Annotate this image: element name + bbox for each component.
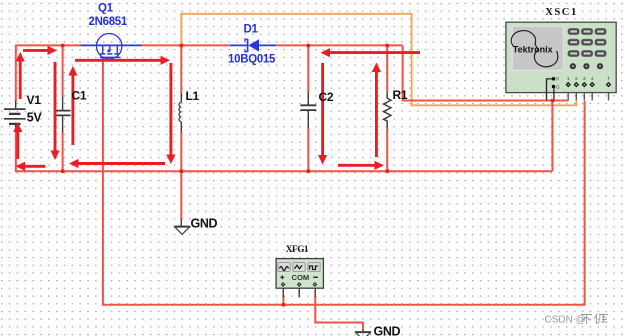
svg-text:GND: GND bbox=[374, 325, 401, 336]
svg-text:V1: V1 bbox=[27, 93, 42, 107]
svg-text:P: P bbox=[556, 77, 559, 82]
svg-text:XSC1: XSC1 bbox=[545, 7, 578, 18]
svg-text:5V: 5V bbox=[27, 111, 43, 125]
svg-text:C2: C2 bbox=[319, 90, 334, 104]
svg-text:GND: GND bbox=[191, 217, 218, 231]
svg-text:R1: R1 bbox=[393, 88, 408, 102]
svg-text:Tektronix: Tektronix bbox=[513, 44, 553, 54]
svg-text:4: 4 bbox=[591, 76, 594, 81]
svg-text:2: 2 bbox=[575, 76, 578, 81]
svg-text:XFG1: XFG1 bbox=[286, 245, 309, 255]
svg-text:C1: C1 bbox=[72, 89, 87, 103]
svg-text:COM: COM bbox=[292, 273, 310, 282]
svg-text:Q1: Q1 bbox=[98, 3, 114, 15]
svg-text:1: 1 bbox=[567, 76, 570, 81]
svg-text:G: G bbox=[556, 84, 560, 89]
svg-text:D1: D1 bbox=[244, 24, 259, 36]
svg-text:CSDN @: CSDN @ bbox=[545, 315, 586, 326]
svg-text:3: 3 bbox=[583, 76, 586, 81]
svg-text:L1: L1 bbox=[186, 89, 200, 103]
svg-text:T: T bbox=[607, 76, 610, 81]
svg-text:10BQ015: 10BQ015 bbox=[228, 54, 276, 66]
svg-text:2N6851: 2N6851 bbox=[89, 16, 128, 28]
